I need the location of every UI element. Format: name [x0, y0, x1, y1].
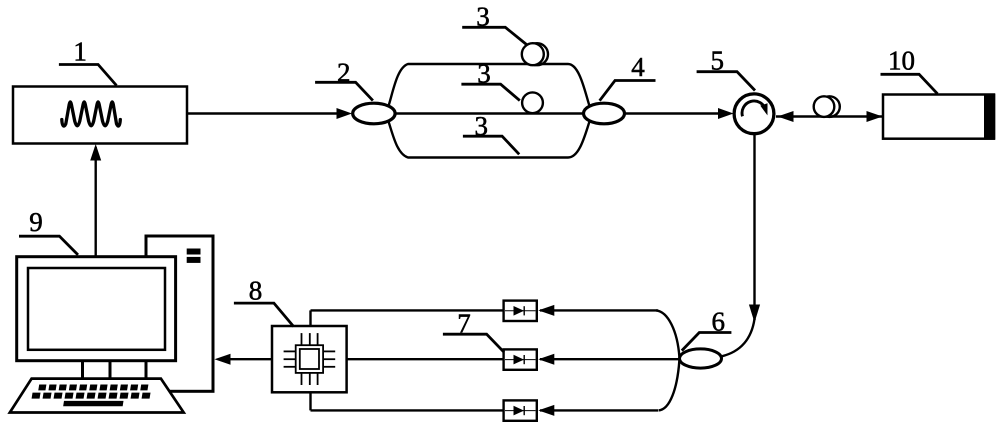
svg-text:6: 6 — [712, 306, 726, 336]
svg-text:2: 2 — [337, 58, 351, 88]
svg-text:1: 1 — [73, 37, 87, 67]
svg-text:3: 3 — [476, 1, 490, 31]
svg-text:7: 7 — [457, 309, 471, 339]
svg-text:8: 8 — [249, 276, 263, 306]
svg-text:3: 3 — [475, 111, 489, 141]
svg-text:3: 3 — [477, 59, 491, 89]
svg-text:10: 10 — [888, 46, 915, 76]
svg-text:9: 9 — [29, 207, 43, 237]
svg-text:4: 4 — [631, 52, 645, 82]
svg-text:5: 5 — [710, 46, 724, 76]
